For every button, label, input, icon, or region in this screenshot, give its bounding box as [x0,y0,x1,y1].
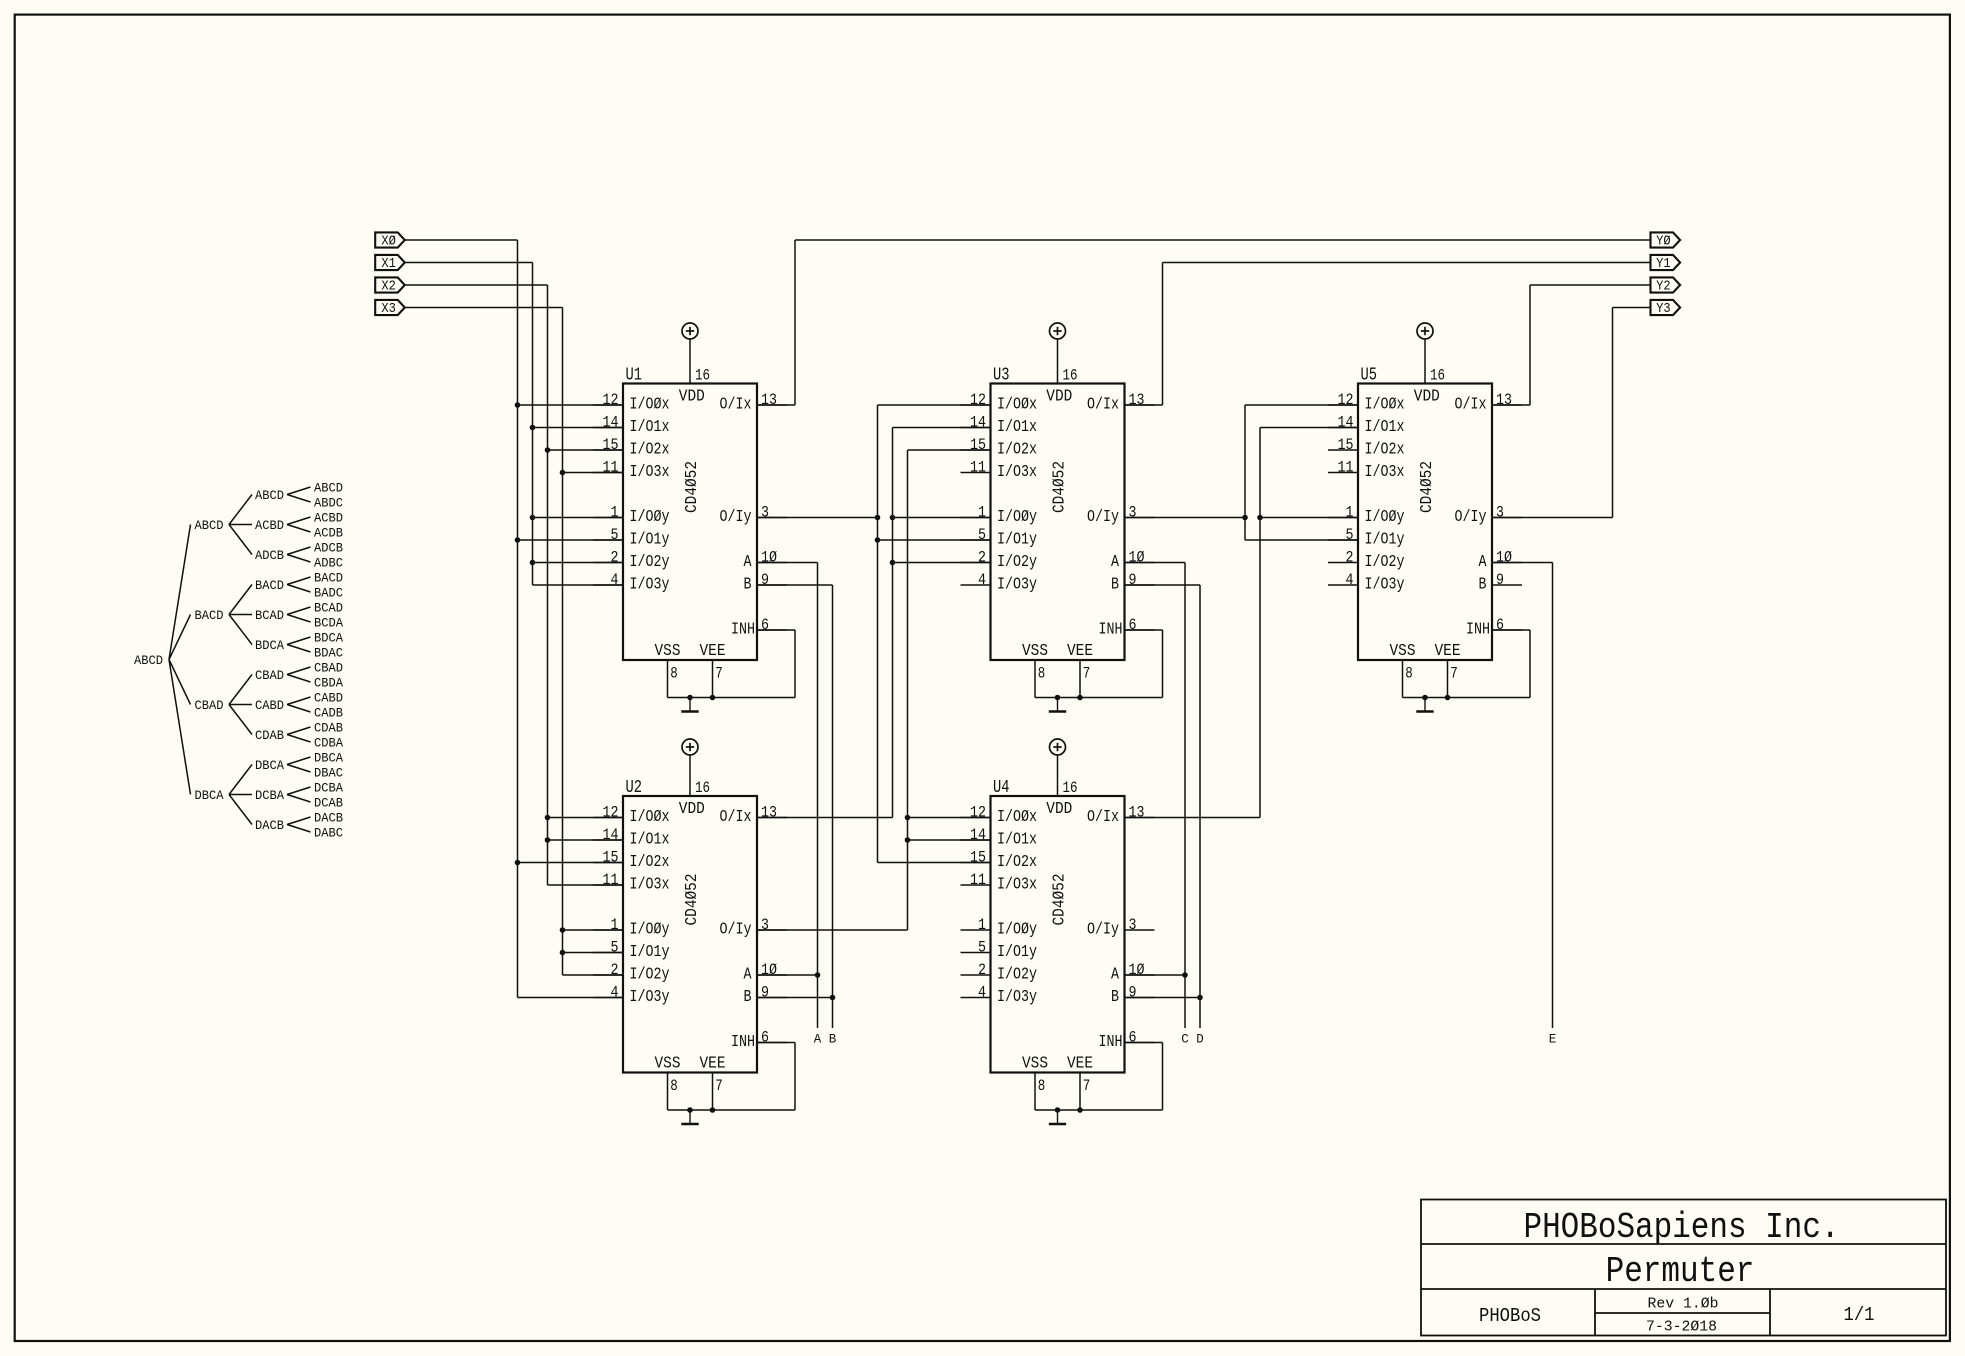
svg-text:DCBA: DCBA [314,781,343,796]
wire X3 bus vertical [562,308,564,976]
tree branch ABCD-ABCD [287,487,311,495]
pin 12 stub U4 [961,817,991,819]
tree branch DCBA-DCBA [287,787,311,795]
wire bus to U5 pin 5 [1245,539,1358,541]
svg-text:I/OØy: I/OØy [997,508,1037,527]
svg-text:O/Ix: O/Ix [1087,396,1119,415]
wire bus to U3 pin 14 [893,427,991,429]
svg-text:1Ø: 1Ø [761,549,777,567]
pin 16 VDD wire U3 [1057,339,1059,384]
tree branch DBCA-DBCA [287,757,311,765]
wire X0 to U1 pin 5 [518,539,624,541]
pin 10 stub U3 [1125,562,1155,564]
pin 6 stub U1 [757,629,787,631]
svg-text:BDCA: BDCA [255,638,284,653]
pin 5 stub U1 [593,539,623,541]
tree branch BACD-BACD [287,577,311,585]
svg-text:8: 8 [1038,1077,1046,1095]
wire net D vertical [1199,585,1201,1028]
svg-text:BACD: BACD [195,608,224,623]
svg-text:16: 16 [695,367,710,385]
svg-text:3: 3 [761,504,769,522]
svg-text:INH: INH [1466,621,1490,640]
pin 8 VSS wire U5 [1402,660,1404,698]
svg-text:I/OØx: I/OØx [630,808,670,827]
svg-text:11: 11 [970,871,986,889]
pin 2 stub U2 [593,974,623,976]
wire X3 from connector [405,307,563,309]
svg-text:BCAD: BCAD [255,608,284,623]
svg-text:I/O3y: I/O3y [630,988,670,1007]
wire bus to U4 pin 15 [878,862,991,864]
pin 4 stub U4 [961,997,991,999]
pin 16 VDD wire U5 [1424,339,1426,384]
pin 3 stub U2 [757,929,787,931]
junction VEE U5 [1445,695,1451,701]
svg-text:U1: U1 [626,366,643,386]
wire X2 to U1 pin 15 [548,449,624,451]
wire Y0 horizontal [795,239,1651,241]
pin 9 stub U3 [1125,584,1155,586]
junction X2/U1.15 [545,447,551,453]
junction X0/U2.15 [515,860,521,866]
wire X0 to U2 pin 4 [518,997,624,999]
svg-text:O/Iy: O/Iy [1455,508,1487,527]
svg-text:2: 2 [611,961,619,979]
svg-text:2: 2 [1346,549,1354,567]
pin 8 VSS wire U3 [1034,660,1036,698]
pin 6 INH wire U2 [757,1042,795,1044]
wire Y1 horizontal [1163,262,1651,264]
svg-text:I/O3x: I/O3x [997,876,1037,895]
svg-text:I/O3x: I/O3x [997,463,1037,482]
tree branch BCAD-BCAD [287,607,311,615]
pin 9 stub U5 [1492,584,1522,586]
svg-text:8: 8 [1405,665,1413,683]
pin 6 stub U4 [1125,1042,1155,1044]
pin 14 stub U1 [593,427,623,429]
svg-text:VEE: VEE [1435,641,1461,660]
svg-text:ABCD: ABCD [195,518,224,533]
junction ground U3 [1055,695,1061,701]
junction X3/U2.5 [560,950,566,956]
svg-text:7-3-2Ø18: 7-3-2Ø18 [1646,1319,1717,1336]
svg-text:2: 2 [978,549,986,567]
svg-text:7: 7 [1083,665,1091,683]
svg-text:11: 11 [1338,459,1354,477]
ground rail U5 [1403,697,1531,699]
svg-text:YØ: YØ [1656,235,1671,250]
svg-text:Permuter: Permuter [1606,1251,1755,1292]
svg-text:1Ø: 1Ø [761,961,777,979]
svg-text:CBDA: CBDA [314,676,343,691]
pin 16 VDD wire U4 [1057,755,1059,796]
svg-text:U2: U2 [626,778,643,798]
ground rail U4 [1035,1109,1163,1111]
svg-text:9: 9 [1129,984,1137,1002]
pin 11 stub U2 [593,884,623,886]
wire bus to U3 pin 15 [908,449,991,451]
svg-text:9: 9 [1129,571,1137,589]
svg-text:9: 9 [1496,571,1504,589]
tree branch DBCA-DACB [229,795,252,825]
pin 1 stub U5 [1328,517,1358,519]
wire Y1 riser [1162,263,1164,406]
svg-text:VSS: VSS [655,641,681,660]
svg-text:16: 16 [1430,367,1445,385]
tree branch root-BACD [169,615,191,660]
pin 6 stub U5 [1492,629,1522,631]
svg-text:4: 4 [611,571,619,589]
wire U3 pin 10 to net C [1125,562,1186,564]
svg-text:I/OØx: I/OØx [1365,396,1405,415]
pin 5 stub U2 [593,952,623,954]
pin 16 VDD wire U1 [689,339,691,384]
wire U5 pin 10 to net E [1492,562,1553,564]
pin 7 VEE wire U2 [712,1073,714,1111]
wire bus to U4 pin 14 [908,839,991,841]
svg-text:7: 7 [1450,665,1458,683]
pin 10 stub U4 [1125,974,1155,976]
ground rail U1 [668,697,796,699]
svg-text:16: 16 [1063,779,1078,797]
svg-text:I/OØy: I/OØy [630,921,670,940]
ground rail U2 [668,1109,796,1111]
svg-text:I/O3x: I/O3x [1365,463,1405,482]
svg-text:O/Iy: O/Iy [720,508,752,527]
svg-text:1Ø: 1Ø [1129,549,1145,567]
svg-text:VDD: VDD [679,799,705,818]
svg-text:CBAD: CBAD [255,668,284,683]
svg-text:DCAB: DCAB [314,796,343,811]
pin 12 stub U5 [1328,404,1358,406]
junction VEE U3 [1077,695,1083,701]
connector Y0 [1651,232,1681,247]
svg-text:C: C [1181,1033,1189,1047]
svg-text:INH: INH [1099,621,1123,640]
svg-text:3: 3 [1496,504,1504,522]
svg-text:1: 1 [611,504,619,522]
svg-text:I/O1x: I/O1x [1365,418,1405,437]
wire X1 bus vertical [532,263,534,586]
svg-text:X1: X1 [381,257,396,272]
svg-text:A: A [1111,966,1120,985]
svg-text:ADBC: ADBC [314,556,343,571]
pin 11 stub U1 [593,472,623,474]
tree branch CDAB-CDBA [287,735,311,743]
tree branch BCAD-BCDA [287,615,311,623]
svg-text:VEE: VEE [700,641,726,660]
svg-text:ADCB: ADCB [255,548,284,563]
svg-text:I/O2x: I/O2x [630,853,670,872]
wire U2 pin 3 out [757,929,908,931]
svg-text:13: 13 [1129,804,1145,822]
svg-text:15: 15 [970,849,986,867]
wire net U1.OIy vertical [877,405,879,863]
svg-text:5: 5 [611,939,619,957]
wire U1 pin 13 to Y0 [757,404,795,406]
svg-text:XØ: XØ [381,235,396,250]
svg-text:1: 1 [1346,504,1354,522]
svg-text:4: 4 [978,571,986,589]
connector X0 [375,232,405,247]
svg-text:I/O3x: I/O3x [630,876,670,895]
tree branch DBCA-DBCA [229,765,252,795]
svg-text:16: 16 [695,779,710,797]
wire bus to U4 pin 12 [908,817,991,819]
tree branch BACD-BACD [229,585,252,615]
power symbol +V U2 [682,739,698,755]
pin 14 stub U2 [593,839,623,841]
svg-text:CD4Ø52: CD4Ø52 [683,461,702,513]
svg-text:Y1: Y1 [1656,257,1671,272]
svg-text:VSS: VSS [1022,641,1048,660]
svg-text:1Ø: 1Ø [1496,549,1512,567]
INH drop wire U3 [1162,630,1164,698]
svg-text:CDAB: CDAB [314,721,343,736]
tree branch CBAD-CBAD [229,675,252,705]
pin 2 stub U5 [1328,562,1358,564]
svg-text:ADCB: ADCB [314,541,343,556]
wire X1 to U1 pin 4 [533,584,624,586]
svg-text:VDD: VDD [1046,799,1072,818]
svg-text:ACBD: ACBD [255,518,284,533]
svg-text:ABCD: ABCD [314,481,343,496]
junction ground U4 [1055,1107,1061,1113]
junction U1.OIy/U3.5 [875,537,881,543]
tree branch BDCA-BDAC [287,645,311,653]
svg-text:B: B [744,988,752,1007]
svg-text:O/Ix: O/Ix [720,396,752,415]
INH drop wire U1 [794,630,796,698]
connector Y3 [1651,300,1681,315]
junction U2.OIy/U4.12 [905,815,911,821]
svg-text:INH: INH [731,621,755,640]
junction ground U5 [1422,695,1428,701]
wire U2 pin 13 out [757,817,893,819]
tree branch root-CBAD [169,660,191,705]
svg-text:15: 15 [603,849,619,867]
tree branch DACB-DACB [287,817,311,825]
wire net A vertical [817,563,819,1029]
svg-text:I/O2y: I/O2y [630,553,670,572]
pin 11 stub U4 [961,884,991,886]
junction X2/U2.12 [545,815,551,821]
tree branch CBAD-CABD [229,704,252,706]
ground symbol U1 [681,698,698,712]
tree branch BDCA-BDCA [287,637,311,645]
svg-text:I/O1x: I/O1x [997,418,1037,437]
svg-text:A: A [814,1033,822,1047]
wire net B vertical [832,585,834,1028]
pin 3 stub U5 [1492,517,1522,519]
svg-text:I/OØy: I/OØy [630,508,670,527]
wire X3 to U2 pin 1 [563,929,624,931]
tree branch ACBD-ACDB [287,525,311,533]
junction U2.OIx/U3.2 [890,560,896,566]
pin 8 VSS wire U1 [667,660,669,698]
svg-text:I/O2y: I/O2y [630,966,670,985]
tree branch BACD-BADC [287,585,311,593]
wire bus to U5 pin 12 [1245,404,1358,406]
pin 12 stub U1 [593,404,623,406]
svg-text:A: A [1111,553,1120,572]
tree branch CDAB-CDAB [287,727,311,735]
pin 11 stub U3 [961,472,991,474]
svg-text:CBAD: CBAD [195,698,224,713]
svg-text:13: 13 [761,391,777,409]
wire Y2 riser [1529,285,1531,405]
svg-text:12: 12 [970,391,986,409]
svg-text:I/OØy: I/OØy [997,921,1037,940]
junction C/U4.10 [1182,972,1188,978]
svg-text:VSS: VSS [1390,641,1416,660]
svg-text:14: 14 [970,826,986,844]
svg-text:12: 12 [603,391,619,409]
svg-text:B: B [744,576,752,595]
svg-text:1: 1 [978,504,986,522]
svg-text:9: 9 [761,571,769,589]
junction X0/U1.5 [515,537,521,543]
svg-text:DACB: DACB [255,818,284,833]
pin 11 stub U5 [1328,472,1358,474]
IC U1 CD4052 body [623,384,757,661]
svg-text:6: 6 [1496,616,1504,634]
svg-text:3: 3 [1129,916,1137,934]
pin 3 stub U3 [1125,517,1155,519]
svg-text:CD4Ø52: CD4Ø52 [683,874,702,926]
svg-text:6: 6 [1129,1029,1137,1047]
svg-text:VDD: VDD [1046,387,1072,406]
junction D/U4.9 [1197,995,1203,1001]
pin 14 stub U5 [1328,427,1358,429]
svg-text:O/Ix: O/Ix [1455,396,1487,415]
svg-text:VSS: VSS [655,1054,681,1073]
wire U4 pin 9 to net D [1125,997,1201,999]
svg-text:1/1: 1/1 [1844,1304,1875,1326]
svg-text:INH: INH [731,1033,755,1052]
svg-text:I/O1x: I/O1x [630,831,670,850]
svg-text:3: 3 [1129,504,1137,522]
wire U3 pin 3 out [1125,517,1246,519]
wire X2 to U2 pin 14 [548,839,624,841]
pin 9 stub U2 [757,997,787,999]
tree branch CBAD-CBDA [287,675,311,683]
ground symbol U3 [1049,698,1066,712]
wire U1 pin 10 to net A [757,562,818,564]
wire bus to U3 pin 2 [893,562,991,564]
svg-text:ACBD: ACBD [314,511,343,526]
svg-text:Rev 1.Øb: Rev 1.Øb [1648,1296,1719,1313]
pin 6 INH wire U5 [1492,629,1530,631]
svg-text:DBCA: DBCA [314,751,343,766]
wire net U4.OIx vertical [1259,428,1261,818]
svg-text:O/Iy: O/Iy [1087,921,1119,940]
junction VEE U4 [1077,1107,1083,1113]
INH drop wire U4 [1162,1043,1164,1111]
junction ground U2 [687,1107,693,1113]
pin 1 stub U3 [961,517,991,519]
svg-text:INH: INH [1099,1033,1123,1052]
pin 15 stub U4 [961,862,991,864]
pin 1 stub U4 [961,929,991,931]
IC U5 CD4052 body [1358,384,1492,661]
svg-text:Y3: Y3 [1656,302,1671,317]
svg-text:1Ø: 1Ø [1129,961,1145,979]
pin 14 stub U4 [961,839,991,841]
tree branch BACD-BDCA [229,615,252,645]
wire X0 from connector [405,239,518,241]
wire bus to U5 pin 1 [1260,517,1358,519]
junction X1/U1.2 [530,560,536,566]
pin 14 stub U3 [961,427,991,429]
svg-text:7: 7 [1083,1077,1091,1095]
pin 10 stub U1 [757,562,787,564]
junction X3/U2.1 [560,927,566,933]
tree branch ABCD-ACBD [229,524,252,526]
ground symbol U2 [681,1110,698,1124]
pin 5 stub U3 [961,539,991,541]
connector X1 [375,255,405,270]
svg-text:12: 12 [1338,391,1354,409]
junction X2/U2.14 [545,837,551,843]
junction U3.3/bus [1242,515,1248,521]
svg-text:I/O2x: I/O2x [1365,441,1405,460]
svg-text:Y2: Y2 [1656,280,1671,295]
wire X1 from connector [405,262,533,264]
svg-text:B: B [1479,576,1487,595]
svg-text:DBCA: DBCA [255,758,284,773]
svg-text:11: 11 [970,459,986,477]
wire bus to U5 pin 14 [1260,427,1358,429]
wire X1 to U1 pin 14 [533,427,624,429]
ground symbol U4 [1049,1110,1066,1124]
connector Y2 [1651,277,1681,292]
pin 15 stub U2 [593,862,623,864]
tree branch BACD-BCAD [229,614,252,616]
tree branch ADCB-ADBC [287,555,311,563]
svg-text:7: 7 [715,1077,723,1095]
tree branch CBAD-CDAB [229,705,252,735]
svg-text:A: A [744,966,753,985]
svg-text:A: A [1479,553,1488,572]
pin 6 stub U3 [1125,629,1155,631]
junction X0/U1.12 [515,402,521,408]
pin 10 stub U2 [757,974,787,976]
svg-text:CD4Ø52: CD4Ø52 [1050,874,1069,926]
svg-text:DACB: DACB [314,811,343,826]
wire Y3 horizontal [1613,307,1651,309]
svg-text:2: 2 [611,549,619,567]
tree branch CABD-CABD [287,697,311,705]
svg-text:D: D [1196,1033,1204,1047]
svg-text:6: 6 [761,616,769,634]
svg-text:B: B [829,1033,837,1047]
pin 2 stub U1 [593,562,623,564]
svg-text:4: 4 [978,984,986,1002]
svg-text:ACDB: ACDB [314,526,343,541]
svg-text:U4: U4 [993,778,1010,798]
wire U3 pin 9 to net D [1125,584,1201,586]
pin 13 stub U2 [757,817,787,819]
svg-text:14: 14 [603,826,619,844]
pin 8 VSS wire U4 [1034,1073,1036,1111]
svg-text:I/O1y: I/O1y [997,943,1037,962]
svg-text:3: 3 [761,916,769,934]
wire X1 to U1 pin 1 [533,517,624,519]
junction U1.3/bus [875,515,881,521]
svg-text:CD4Ø52: CD4Ø52 [1418,461,1437,513]
